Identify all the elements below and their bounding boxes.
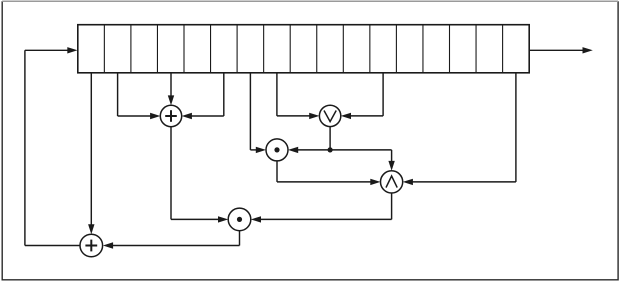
wire: DOT2 output down then left into XOR2 right [103,231,240,249]
wire: OR output down to junction [329,127,331,150]
op DOT1 (multiply circle) [266,139,288,161]
op OR (vee circle) [319,105,340,126]
wire: tap cell6 to XOR1 right [182,73,224,119]
wire: tap cell17 down then left into AND right [403,73,516,185]
wire: tap cell1 down to XOR2 [88,73,94,234]
op-amp XOR1 (top plus circle) [160,105,181,126]
wire: tap cell4 down into XOR1 top [168,73,174,106]
junction node [328,147,333,152]
wire: tap cell7 to DOT1 left [250,73,266,153]
wire: XOR1 output down then right into DOT2 left [171,127,228,223]
wire: tap cell2 to XOR1 left [118,73,161,119]
wire: register input (feedback into register) [25,47,78,53]
shift register (17 cells) [78,25,529,73]
wire: XOR2 output to feedback corner [25,245,80,247]
wire: tap cell8 to OR left [277,73,320,119]
wire: register output arrow [529,47,593,53]
wire: feedback left vertical [24,50,26,245]
wire: tap cell12 to OR right [341,73,383,119]
op AND (wedge circle) [381,171,403,193]
wire: DOT1 output down then right into AND left [277,161,381,185]
wire: junction right then down into AND top [330,150,395,171]
op DOT2 (multiply circle bottom) [228,208,251,231]
wire: junction left into DOT1 right [288,147,330,153]
wire: AND output down then left into DOT2 right [251,193,392,223]
op XOR2 (bottom plus circle) [80,234,103,257]
